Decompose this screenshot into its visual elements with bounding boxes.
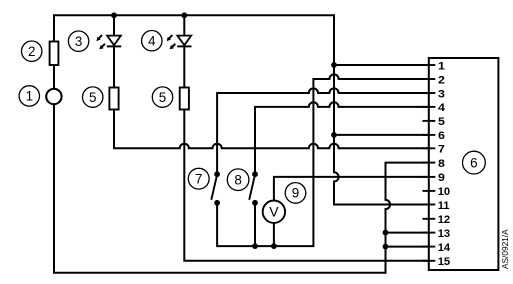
- svg-text:5: 5: [159, 90, 166, 105]
- svg-text:3: 3: [438, 88, 445, 100]
- svg-text:12: 12: [438, 214, 450, 226]
- svg-text:8: 8: [234, 172, 241, 187]
- svg-text:8: 8: [438, 158, 445, 170]
- svg-text:5: 5: [89, 90, 96, 105]
- svg-text:5: 5: [438, 116, 445, 128]
- svg-text:6: 6: [438, 130, 445, 142]
- svg-text:15: 15: [438, 256, 450, 268]
- svg-text:6: 6: [470, 155, 477, 170]
- svg-text:AS/0921/A: AS/0921/A: [500, 229, 510, 269]
- svg-text:2: 2: [438, 74, 445, 86]
- svg-text:2: 2: [28, 44, 35, 59]
- svg-text:10: 10: [438, 186, 450, 198]
- svg-text:9: 9: [438, 172, 445, 184]
- svg-text:4: 4: [438, 102, 446, 114]
- svg-text:14: 14: [438, 242, 451, 254]
- svg-text:1: 1: [438, 60, 445, 72]
- svg-text:11: 11: [438, 200, 450, 212]
- svg-text:7: 7: [195, 171, 202, 186]
- svg-text:3: 3: [75, 34, 82, 49]
- svg-text:13: 13: [438, 228, 450, 240]
- svg-text:1: 1: [26, 89, 33, 104]
- svg-text:9: 9: [292, 186, 299, 201]
- svg-text:V: V: [269, 204, 279, 220]
- svg-text:4: 4: [148, 33, 156, 48]
- svg-text:7: 7: [438, 144, 445, 156]
